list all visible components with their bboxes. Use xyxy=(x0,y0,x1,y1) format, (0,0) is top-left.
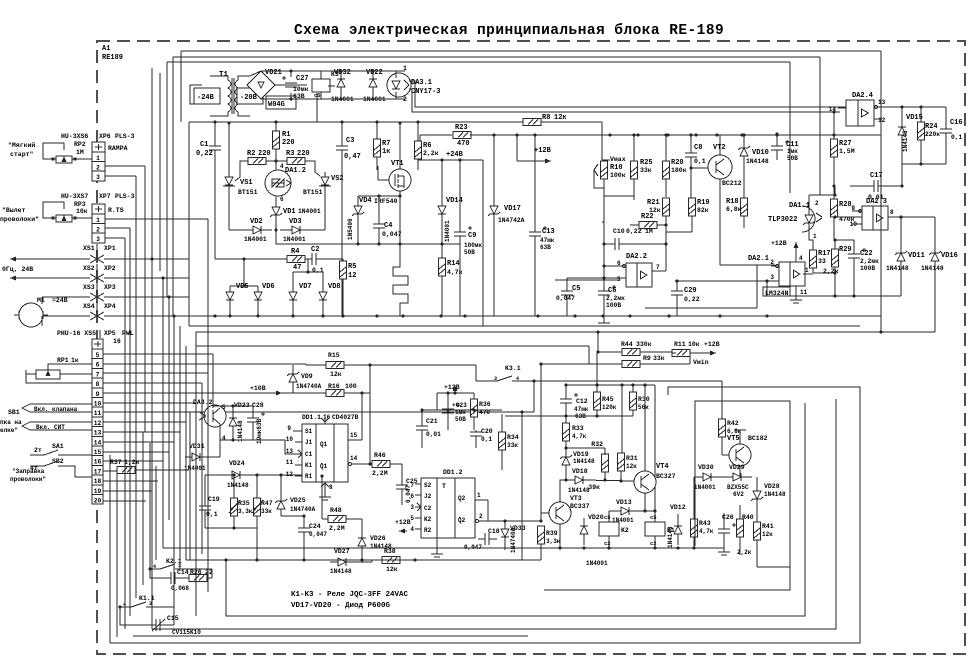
label C16 xyxy=(950,119,963,141)
svg-text:7: 7 xyxy=(96,371,100,378)
svg-text:VD26: VD26 xyxy=(370,535,386,542)
svg-text:RE189: RE189 xyxy=(102,54,123,62)
capacitor C16 xyxy=(940,107,952,148)
svg-text:R38: R38 xyxy=(384,548,396,555)
optocoupler DA3.1 xyxy=(387,71,411,99)
label C2 xyxy=(311,246,324,274)
svg-text:с5: с5 xyxy=(604,514,611,521)
wire rail corner left xyxy=(188,122,190,326)
svg-text:10мк: 10мк xyxy=(293,86,309,93)
wire c29 top xyxy=(675,280,779,282)
pin 3 DD1.2 xyxy=(410,503,421,511)
label VT2 xyxy=(713,144,742,187)
resistor R2 xyxy=(247,150,271,165)
label C13 xyxy=(540,228,555,251)
svg-text:R48: R48 xyxy=(330,507,342,514)
wire c5 c6 top xyxy=(0,0,1,1)
svg-text:1N4001: 1N4001 xyxy=(298,208,321,215)
svg-text:BC212: BC212 xyxy=(722,180,742,187)
label VD1 xyxy=(283,208,321,216)
svg-text:220к: 220к xyxy=(925,131,940,138)
resistor R26 xyxy=(184,575,212,582)
pin 1 DA3.1 xyxy=(403,65,407,72)
resistor R20 xyxy=(663,133,670,197)
pin 5 DA2.2 xyxy=(567,276,626,283)
diode VD24 xyxy=(205,471,302,479)
label 1N5406 xyxy=(347,218,354,240)
label C4 xyxy=(382,222,402,238)
label +12B mid xyxy=(437,384,474,395)
resistor R25 xyxy=(631,133,638,196)
label R41 xyxy=(762,523,774,538)
mosfet VT1 xyxy=(389,121,411,236)
relay coil K3 xyxy=(312,71,339,99)
resistor R35 trim xyxy=(229,475,240,528)
svg-text:A1: A1 xyxy=(102,45,110,53)
switch SB2 xyxy=(10,458,92,483)
svg-text:с5: с5 xyxy=(650,514,657,521)
label +10B xyxy=(250,385,282,396)
capacitor C9 xyxy=(454,160,472,316)
wire DA2.4 out xyxy=(882,105,946,108)
label R45 xyxy=(602,396,617,411)
svg-text:XP1: XP1 xyxy=(104,245,116,252)
svg-text:T: T xyxy=(442,483,446,490)
label R29 xyxy=(823,246,852,275)
node XS4 xyxy=(42,312,189,320)
pin 5 DD1.2 xyxy=(410,515,421,522)
wire loop2 bottom xyxy=(226,403,805,616)
transformer T1 xyxy=(210,76,250,116)
svg-text:XS3: XS3 xyxy=(83,284,95,291)
svg-text:1: 1 xyxy=(96,155,100,162)
svg-text:17: 17 xyxy=(94,468,102,475)
svg-text:3: 3 xyxy=(770,274,774,281)
diode VD5 xyxy=(226,286,234,316)
svg-text:4: 4 xyxy=(410,526,414,533)
diode VD10 xyxy=(738,133,750,168)
svg-text:1N4740A: 1N4740A xyxy=(510,527,517,553)
label RP2 xyxy=(74,141,86,156)
diode VD20 xyxy=(580,518,588,545)
svg-text:VD20: VD20 xyxy=(588,514,604,521)
svg-text:VD32: VD32 xyxy=(334,69,351,77)
svg-text:1N4148: 1N4148 xyxy=(573,458,595,465)
svg-text:C3: C3 xyxy=(346,137,354,145)
label R17 xyxy=(818,250,831,265)
svg-text:C4: C4 xyxy=(384,222,392,230)
resistor R30 xyxy=(505,385,637,418)
potentiometer RP1 xyxy=(26,357,79,379)
svg-text:2: 2 xyxy=(96,165,100,172)
label Вылет проволоки xyxy=(0,207,39,223)
svg-text:4,7к: 4,7к xyxy=(699,528,714,535)
wire XP7 pins xyxy=(105,219,208,412)
svg-text:DA1.2: DA1.2 xyxy=(285,167,306,175)
wire k11 loop xyxy=(120,607,174,625)
svg-text:0,047: 0,047 xyxy=(556,295,575,302)
label C10 xyxy=(613,228,653,235)
capacitor C29 xyxy=(671,279,683,316)
svg-text:VD6: VD6 xyxy=(262,283,275,291)
label R24 xyxy=(925,123,940,138)
svg-text:VD4: VD4 xyxy=(359,197,372,205)
svg-text:15: 15 xyxy=(350,432,358,439)
svg-text:220: 220 xyxy=(258,150,271,158)
svg-text:с2: с2 xyxy=(604,540,611,547)
optocoupler DA1.2 xyxy=(265,161,291,206)
wire r23 bus xyxy=(420,133,881,160)
capacitor C24 xyxy=(281,514,310,561)
label W04G box xyxy=(266,96,296,109)
label DD1.1 xyxy=(302,414,359,421)
svg-text:VD29: VD29 xyxy=(729,464,745,471)
svg-text:120к: 120к xyxy=(602,404,617,411)
wire RP1 xyxy=(26,364,92,383)
svg-text:RAMPA: RAMPA xyxy=(108,145,128,152)
diode VD14 xyxy=(438,160,446,244)
resistor R3 xyxy=(286,150,310,165)
wire loop4 bottom xyxy=(133,635,528,637)
resistor R38 xyxy=(372,557,415,564)
pin 2 DA2.1 xyxy=(770,259,779,268)
resistor R6 xyxy=(415,120,422,170)
label R46 xyxy=(372,452,388,477)
label VD25 xyxy=(290,497,316,513)
svg-text:10: 10 xyxy=(94,401,102,408)
label +24B xyxy=(418,151,483,326)
svg-text:Q̄1: Q̄1 xyxy=(320,463,328,470)
wire XP6 pins xyxy=(105,166,145,432)
svg-text:RP1: RP1 xyxy=(57,357,69,364)
svg-text:CD4027B: CD4027B xyxy=(332,414,359,421)
svg-text:1N4742A: 1N4742A xyxy=(498,217,525,224)
svg-text:Vмin: Vмin xyxy=(693,359,709,366)
svg-text:PLS-3: PLS-3 xyxy=(115,193,135,200)
svg-text:VD28: VD28 xyxy=(764,483,780,490)
svg-text:R4: R4 xyxy=(291,248,299,256)
svg-text:1: 1 xyxy=(403,65,407,72)
svg-text:BC182: BC182 xyxy=(748,435,768,442)
transistor VT2 xyxy=(689,135,775,265)
label 50Hz xyxy=(2,266,33,273)
svg-text:3: 3 xyxy=(96,174,100,181)
diode VD7 xyxy=(289,272,297,316)
svg-text:"Заправка: "Заправка xyxy=(12,468,45,475)
svg-text:0,47: 0,47 xyxy=(344,153,361,161)
opamp DA2.4 xyxy=(846,92,874,126)
svg-text:XP6: XP6 xyxy=(99,133,111,140)
svg-text:220: 220 xyxy=(297,150,310,158)
svg-text:BC327: BC327 xyxy=(656,473,676,480)
wire r10 wiper xyxy=(0,0,1,1)
svg-text:K2: K2 xyxy=(621,527,629,534)
svg-text:47мк: 47мк xyxy=(574,406,589,413)
capacitor C12 xyxy=(560,385,578,416)
capacitor C21 xyxy=(416,410,428,448)
svg-text:3: 3 xyxy=(410,504,414,511)
pin 13 DD1.1 xyxy=(286,448,302,458)
label T1 xyxy=(219,71,229,79)
svg-text:100мк: 100мк xyxy=(464,242,482,249)
svg-text:1N4148: 1N4148 xyxy=(330,568,352,575)
zener VD28 xyxy=(751,477,763,510)
svg-text:-20В: -20В xyxy=(240,94,258,102)
wire mid v x370 xyxy=(368,365,371,466)
resistor R8 xyxy=(523,119,541,126)
svg-text:R9: R9 xyxy=(643,355,651,362)
label R15 xyxy=(328,352,342,378)
wire top bus 3 xyxy=(167,62,790,193)
diode VD16 xyxy=(929,217,941,332)
label VD18 xyxy=(568,468,590,494)
svg-text:1N4740A: 1N4740A xyxy=(290,506,316,513)
svg-text:13: 13 xyxy=(878,99,886,106)
svg-text:R10: R10 xyxy=(610,164,623,172)
label VD15 xyxy=(902,114,923,152)
label R1 xyxy=(282,131,295,147)
wire k3 coil drop xyxy=(317,86,335,122)
capacitor C14 xyxy=(160,572,184,584)
svg-text:0,01: 0,01 xyxy=(426,431,441,438)
svg-text:DA2.1: DA2.1 xyxy=(748,255,769,263)
svg-text:33к: 33к xyxy=(653,355,665,362)
pin 3 DA2.1 xyxy=(770,274,774,281)
label IRF540 xyxy=(374,198,398,205)
wire dd12 right xyxy=(488,500,543,523)
svg-text:12к: 12к xyxy=(762,531,773,538)
svg-text:XS2: XS2 xyxy=(83,265,95,272)
svg-text:VD2: VD2 xyxy=(250,218,263,226)
svg-text:J2: J2 xyxy=(424,493,432,500)
svg-text:R24: R24 xyxy=(925,123,938,131)
wire da22 area xyxy=(604,196,668,278)
wire vd27 r38 row xyxy=(358,560,372,562)
pin 4 DA1.2 xyxy=(280,163,284,170)
diode VD13 xyxy=(609,493,657,515)
svg-text:C10: C10 xyxy=(613,228,625,235)
label VD7 xyxy=(299,283,312,291)
svg-text:1N4148: 1N4148 xyxy=(902,130,909,152)
label VD17 xyxy=(498,205,525,224)
capacitor C25 xyxy=(396,464,408,505)
svg-text:0,047: 0,047 xyxy=(382,231,402,238)
label R5 xyxy=(348,263,356,280)
label M1 xyxy=(37,297,68,304)
resistor R18 xyxy=(741,168,748,228)
svg-text:DA1.1: DA1.1 xyxy=(789,202,810,210)
svg-text:R34: R34 xyxy=(507,434,519,441)
wire mid verticals a xyxy=(195,332,197,560)
capacitor C13 xyxy=(529,135,547,316)
diode VD17 xyxy=(488,135,500,316)
svg-text:8: 8 xyxy=(329,484,333,491)
capacitor C18 xyxy=(478,533,497,545)
svg-text:K1: K1 xyxy=(305,462,313,469)
label XS2 XP2 xyxy=(83,264,116,276)
contact K2.1 xyxy=(148,558,212,571)
svg-text:12: 12 xyxy=(878,117,886,124)
svg-text:R17: R17 xyxy=(818,250,831,258)
optocoupler DA1.1 xyxy=(802,206,822,234)
wire ps bottom rail y316 xyxy=(189,314,881,317)
svg-text:1,2к: 1,2к xyxy=(124,459,140,466)
svg-text:19: 19 xyxy=(94,488,102,495)
svg-text:VD12: VD12 xyxy=(670,504,686,511)
capacitor C22 xyxy=(835,240,866,296)
resistor R24 xyxy=(918,107,925,155)
svg-text:BT151: BT151 xyxy=(303,189,323,196)
label -20B xyxy=(237,88,263,104)
zener VD25 xyxy=(275,473,287,516)
svg-text:2,2мк: 2,2мк xyxy=(606,295,625,302)
svg-text:R45: R45 xyxy=(602,396,614,403)
wire r39 bottom xyxy=(540,558,542,560)
label R20 xyxy=(671,159,687,174)
svg-text:5: 5 xyxy=(222,404,226,411)
svg-text:8: 8 xyxy=(96,381,100,388)
svg-text:18: 18 xyxy=(94,478,102,485)
diode VD31 xyxy=(185,440,220,461)
svg-text:VD17: VD17 xyxy=(504,205,521,213)
svg-text:C1: C1 xyxy=(200,141,208,149)
svg-text:1N4001: 1N4001 xyxy=(283,236,306,243)
svg-text:0,22: 0,22 xyxy=(684,296,700,303)
label PHU-16 XS5 XP5 xyxy=(57,330,134,345)
svg-text:R30: R30 xyxy=(638,396,650,403)
label C29 xyxy=(684,287,700,303)
label R33 xyxy=(572,425,587,440)
svg-text:+12В: +12В xyxy=(704,341,720,348)
svg-text:50В: 50В xyxy=(455,416,466,423)
svg-text:C5: C5 xyxy=(572,285,580,293)
connector XP5 xyxy=(92,339,103,505)
svg-text:C20: C20 xyxy=(481,428,493,435)
svg-text:R15: R15 xyxy=(328,352,340,359)
label R36 xyxy=(479,401,491,416)
svg-text:DA2.3: DA2.3 xyxy=(866,198,887,206)
svg-text:12к: 12к xyxy=(386,566,398,573)
capacitor C17 xyxy=(850,148,946,192)
diode VD18 xyxy=(564,472,634,484)
resistor R27 xyxy=(831,110,838,186)
svg-text:VS1: VS1 xyxy=(240,179,253,187)
resistor R29 xyxy=(832,238,839,296)
label VD30 xyxy=(694,464,716,491)
svg-text:+C23: +C23 xyxy=(452,402,467,409)
svg-text:К1-К3 - Реле JQC-3FF 24VAC: К1-К3 - Реле JQC-3FF 24VAC xyxy=(291,591,409,599)
note relays xyxy=(291,591,409,599)
label R11 xyxy=(674,341,700,348)
resistor R47 trim xyxy=(205,475,263,562)
zener VD33 xyxy=(501,521,509,550)
capacitor C11 xyxy=(771,132,789,160)
label DA1.1 xyxy=(768,202,810,224)
svg-text:C13: C13 xyxy=(542,228,555,236)
svg-text:R41: R41 xyxy=(762,523,774,530)
svg-text:14: 14 xyxy=(829,106,837,113)
wire right v x881 xyxy=(880,51,882,332)
wire XP5 rows xyxy=(103,354,536,560)
svg-text:R29: R29 xyxy=(839,246,852,254)
title xyxy=(294,23,724,39)
label Vmin xyxy=(693,359,709,366)
resistor R16 xyxy=(293,390,370,397)
svg-text:12: 12 xyxy=(348,272,356,280)
svg-text:14: 14 xyxy=(94,439,102,446)
svg-text:11: 11 xyxy=(94,410,102,417)
label +12B dd12 xyxy=(395,519,411,534)
svg-text:R37: R37 xyxy=(110,459,122,466)
label C9 xyxy=(464,232,482,256)
node XS2 xyxy=(10,274,189,282)
wire k3 contact leads xyxy=(476,346,589,523)
svg-text:R3: R3 xyxy=(286,150,294,158)
label DD1.2 xyxy=(443,469,463,476)
svg-text:PLS-3: PLS-3 xyxy=(115,133,135,140)
svg-text:C21: C21 xyxy=(426,418,438,425)
wire DA3.1 right xyxy=(409,81,849,112)
wire top bus 2 xyxy=(173,57,820,195)
svg-text:BT151: BT151 xyxy=(238,189,258,196)
label R28 xyxy=(839,201,855,223)
svg-text:2: 2 xyxy=(403,96,407,103)
svg-text:Q2: Q2 xyxy=(458,495,466,502)
pin 1 DA2.1 xyxy=(803,267,813,274)
wire vd23 c28 tops xyxy=(213,404,295,454)
label C25 xyxy=(405,478,418,503)
pin 4 DA2.1 xyxy=(796,255,803,262)
svg-text:33к: 33к xyxy=(640,167,652,174)
svg-text:12: 12 xyxy=(94,420,102,427)
svg-text:VD17-VD20 - Диод P600G: VD17-VD20 - Диод P600G xyxy=(291,602,391,610)
svg-text:6: 6 xyxy=(410,493,414,500)
svg-text:10к: 10к xyxy=(76,208,88,215)
svg-text:1N4148: 1N4148 xyxy=(237,420,244,442)
label Вкл клапана xyxy=(22,404,92,413)
label VD20 xyxy=(588,514,604,521)
label VT3 xyxy=(570,495,590,510)
svg-text:9: 9 xyxy=(287,425,291,432)
pin 1 DD1.2 xyxy=(431,492,488,557)
svg-text:VD25: VD25 xyxy=(290,497,306,504)
pin 6 DA2.2 xyxy=(602,260,626,268)
svg-text:4: 4 xyxy=(222,435,226,442)
svg-text:R27: R27 xyxy=(839,140,852,148)
svg-text:3: 3 xyxy=(96,236,100,243)
wire da21 links xyxy=(765,215,862,296)
label RP3 xyxy=(74,201,88,215)
label VD23 xyxy=(234,402,250,442)
label VD16 xyxy=(921,252,958,272)
resistor R40 xyxy=(737,505,744,555)
label C24 xyxy=(309,523,327,538)
resistor R17 xyxy=(809,234,837,275)
svg-text:+12В: +12В xyxy=(395,519,411,526)
svg-text:47мк: 47мк xyxy=(540,237,555,244)
wire vd5..8 tops xyxy=(230,257,323,287)
svg-text:C18: C18 xyxy=(488,528,500,535)
wire bridge out xyxy=(275,84,307,86)
label VD3 xyxy=(283,218,306,243)
svg-text:0,047: 0,047 xyxy=(309,531,327,538)
label R39 xyxy=(546,530,561,545)
svg-text:0Гц, 24В: 0Гц, 24В xyxy=(2,266,33,273)
svg-text:R28: R28 xyxy=(839,201,852,209)
svg-text:R25: R25 xyxy=(640,159,653,167)
wire T1 primary feed xyxy=(190,85,202,104)
capacitor C5 xyxy=(561,278,573,316)
